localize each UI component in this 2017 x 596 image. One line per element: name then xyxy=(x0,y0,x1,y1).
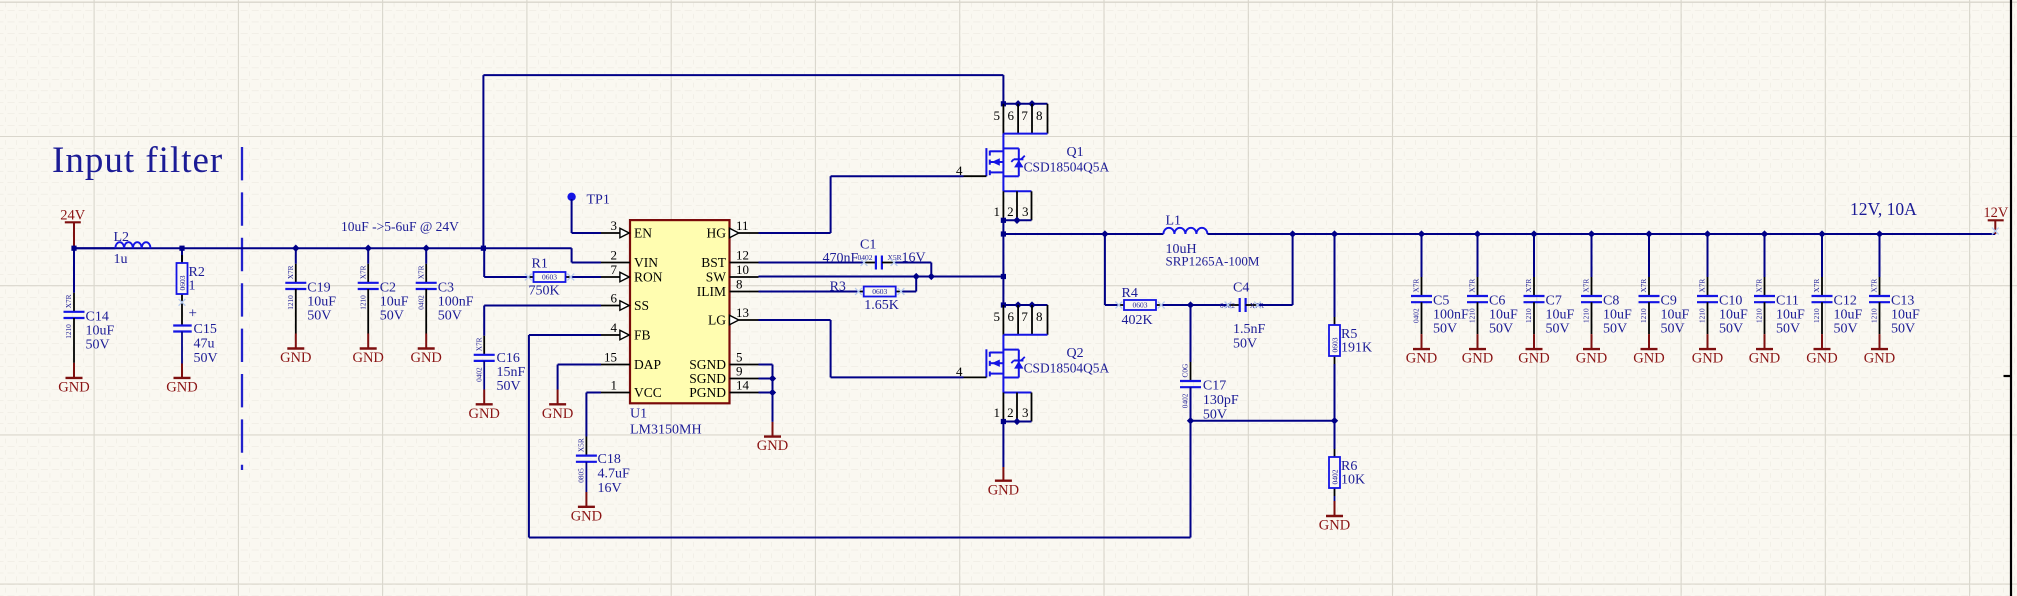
svg-text:X5R: X5R xyxy=(888,253,902,262)
svg-text:2: 2 xyxy=(611,247,618,262)
pin 9 SGND xyxy=(730,378,759,380)
wire xyxy=(1591,234,1593,277)
resistor R6 xyxy=(1334,449,1336,457)
pin 1 VCC xyxy=(601,392,630,394)
svg-text:L2: L2 xyxy=(114,230,130,245)
svg-text:0603: 0603 xyxy=(178,275,187,290)
svg-text:4.7uF: 4.7uF xyxy=(598,466,631,481)
resistor R1 xyxy=(528,276,533,278)
capacitor C9 xyxy=(1648,277,1650,296)
svg-text:Q2: Q2 xyxy=(1067,346,1084,361)
ground xyxy=(1764,334,1766,349)
capacitor C3 xyxy=(423,245,430,252)
wire: feedback node xyxy=(1191,420,1335,422)
capacitor C2 xyxy=(367,264,369,283)
svg-text:DAP: DAP xyxy=(634,357,661,372)
svg-text:50V: 50V xyxy=(1233,336,1257,351)
svg-text:50V: 50V xyxy=(1834,322,1858,337)
svg-text:1210: 1210 xyxy=(1524,308,1533,323)
svg-text:GND: GND xyxy=(1864,351,1895,367)
svg-text:C3: C3 xyxy=(438,280,454,295)
capacitor C4 xyxy=(1191,304,1229,306)
ground xyxy=(367,334,369,349)
svg-text:10uF: 10uF xyxy=(1891,308,1920,323)
svg-text:50V: 50V xyxy=(380,308,404,323)
node: junction at R2 xyxy=(179,246,184,251)
capacitor C15 (polarized) xyxy=(181,302,183,326)
svg-text:CSD18504Q5A: CSD18504Q5A xyxy=(1024,361,1110,376)
svg-text:GND: GND xyxy=(1518,351,1549,367)
body diode xyxy=(1003,147,1018,149)
svg-text:191K: 191K xyxy=(1341,341,1372,356)
svg-text:10uF: 10uF xyxy=(1546,308,1575,323)
wire: SW line xyxy=(759,276,1004,278)
wire: top rail to Q1 drain xyxy=(483,74,1003,76)
svg-text:3: 3 xyxy=(1022,405,1029,420)
svg-text:GND: GND xyxy=(542,406,573,422)
node: feedback junction xyxy=(1187,417,1194,424)
node: R5/R6 junction xyxy=(1331,417,1338,424)
svg-text:2: 2 xyxy=(1007,204,1014,219)
ground xyxy=(1533,334,1535,349)
svg-text:C10: C10 xyxy=(1719,294,1742,309)
capacitor C2 xyxy=(365,245,372,252)
svg-text:GND: GND xyxy=(468,406,499,422)
capacitor C7 xyxy=(1533,277,1535,296)
svg-text:2: 2 xyxy=(1007,405,1014,420)
svg-text:R1: R1 xyxy=(532,257,548,272)
svg-text:10uF: 10uF xyxy=(1489,308,1518,323)
capacitor C3 xyxy=(425,264,427,283)
wire: source pins tie xyxy=(1003,421,1031,423)
ground xyxy=(772,422,774,437)
svg-text:1: 1 xyxy=(994,204,1001,219)
svg-text:6: 6 xyxy=(1007,108,1014,123)
svg-text:X7R: X7R xyxy=(286,265,295,279)
wire xyxy=(425,248,427,264)
svg-text:1.5nF: 1.5nF xyxy=(1233,322,1266,337)
svg-text:X7R: X7R xyxy=(416,265,425,279)
ground xyxy=(483,390,485,405)
svg-text:3: 3 xyxy=(1022,204,1029,219)
wire: drain pins tie xyxy=(1003,103,1047,105)
ground xyxy=(425,334,427,349)
pin 10 SW xyxy=(730,276,759,278)
ground xyxy=(585,492,587,507)
svg-text:C16: C16 xyxy=(497,351,520,366)
svg-text:10uF: 10uF xyxy=(1661,308,1690,323)
capacitor C18 xyxy=(585,437,587,456)
svg-text:10uF: 10uF xyxy=(307,294,336,309)
svg-text:0402: 0402 xyxy=(1412,308,1421,323)
pin 15 DAP xyxy=(601,364,630,366)
svg-text:50V: 50V xyxy=(438,308,462,323)
svg-text:GND: GND xyxy=(1806,351,1837,367)
svg-text:50V: 50V xyxy=(1719,322,1743,337)
svg-text:R3: R3 xyxy=(830,280,846,295)
svg-text:GND: GND xyxy=(352,350,383,366)
svg-text:10uF: 10uF xyxy=(380,294,409,309)
svg-text:50V: 50V xyxy=(1546,322,1570,337)
capacitor C8 xyxy=(1591,277,1593,296)
svg-text:R4: R4 xyxy=(1122,286,1138,301)
node: R4/C4/C17 junction xyxy=(1187,301,1194,308)
svg-text:GND: GND xyxy=(571,508,602,524)
svg-text:C4: C4 xyxy=(1233,281,1249,296)
svg-text:TP1: TP1 xyxy=(587,192,610,207)
inductor L2 xyxy=(74,247,115,249)
svg-text:C17: C17 xyxy=(1203,378,1226,393)
svg-text:0603: 0603 xyxy=(1330,337,1339,352)
wire: C4 to output rail xyxy=(1258,304,1293,306)
capacitor C10 xyxy=(1707,277,1709,296)
wire xyxy=(295,248,297,264)
pin 4 gate xyxy=(964,175,987,177)
svg-text:GND: GND xyxy=(1692,351,1723,367)
resistor R5 xyxy=(1334,317,1336,325)
svg-text:1: 1 xyxy=(189,279,196,294)
svg-text:X7R: X7R xyxy=(474,337,483,351)
svg-text:+: + xyxy=(189,306,197,322)
wire: SGND/PGND tie xyxy=(759,364,773,366)
source pins tie xyxy=(1003,190,1031,192)
svg-text:SS: SS xyxy=(634,298,649,313)
svg-text:SGND: SGND xyxy=(689,371,726,386)
ground xyxy=(1334,501,1336,516)
svg-text:15: 15 xyxy=(604,349,617,364)
ground xyxy=(1002,467,1004,481)
svg-text:C18: C18 xyxy=(598,452,621,467)
svg-text:C8: C8 xyxy=(1603,294,1619,309)
wire: drain pins tie xyxy=(1003,304,1047,306)
svg-text:1210: 1210 xyxy=(1698,308,1707,323)
node: C1 junction xyxy=(928,273,935,280)
wire xyxy=(73,248,75,293)
hotspot marks xyxy=(525,274,532,281)
svg-text:LM3150MH: LM3150MH xyxy=(630,423,702,438)
node: junction C12 xyxy=(1818,230,1825,237)
svg-text:15nF: 15nF xyxy=(497,365,526,380)
ground xyxy=(1648,334,1650,349)
svg-text:1210: 1210 xyxy=(286,295,295,310)
svg-text:0603: 0603 xyxy=(542,273,557,282)
svg-text:X7R: X7R xyxy=(1524,279,1533,293)
wire xyxy=(1477,234,1479,277)
wire: LG to Q2 gate xyxy=(759,319,831,321)
svg-text:X5R: X5R xyxy=(577,438,586,452)
wire: FB feedback xyxy=(529,334,601,336)
svg-text:X7R: X7R xyxy=(1468,279,1477,293)
wire: VIN step into U1 pin2 xyxy=(571,248,573,262)
svg-text:GND: GND xyxy=(1406,351,1437,367)
mosfet body Q1 xyxy=(1003,133,1047,135)
svg-text:50V: 50V xyxy=(194,351,218,366)
pin 14 PGND xyxy=(730,392,759,394)
svg-text:50V: 50V xyxy=(1489,322,1513,337)
node: SGND9 junction xyxy=(769,375,776,382)
svg-text:SW: SW xyxy=(706,270,727,285)
svg-text:10uF: 10uF xyxy=(1834,308,1863,323)
wire: DAP to ground xyxy=(558,364,601,366)
svg-text:1210: 1210 xyxy=(1639,308,1648,323)
svg-text:50V: 50V xyxy=(307,308,331,323)
node: junction C9 xyxy=(1645,230,1652,237)
wire xyxy=(1648,234,1650,277)
capacitor C5 xyxy=(1421,277,1423,296)
wire: C1 to SW node xyxy=(894,262,931,264)
ground xyxy=(1821,334,1823,349)
svg-text:50V: 50V xyxy=(1661,322,1685,337)
pin 6 SS xyxy=(601,305,620,307)
svg-text:C11: C11 xyxy=(1776,294,1799,309)
resistor R6 xyxy=(1334,421,1336,449)
wire xyxy=(1533,234,1535,277)
svg-text:1.65K: 1.65K xyxy=(864,298,899,313)
svg-text:0402: 0402 xyxy=(416,295,425,310)
svg-text:0402: 0402 xyxy=(1330,469,1339,484)
svg-text:5: 5 xyxy=(994,309,1001,324)
node: SW out junction xyxy=(1001,231,1006,236)
svg-text:8: 8 xyxy=(1036,309,1043,324)
resistor R2 xyxy=(181,248,183,261)
pin 3 xyxy=(1031,191,1033,220)
svg-text:4: 4 xyxy=(956,364,963,379)
svg-text:50V: 50V xyxy=(1603,322,1627,337)
pin 11 HG xyxy=(739,232,759,234)
pin 8 xyxy=(1047,104,1049,134)
svg-text:X7R: X7R xyxy=(1582,279,1591,293)
svg-text:SRP1265A-100M: SRP1265A-100M xyxy=(1166,254,1260,269)
ground xyxy=(1591,334,1593,349)
svg-text:Input filter: Input filter xyxy=(52,140,223,181)
node: junction C6 xyxy=(1474,230,1481,237)
wire: HG to Q1 gate xyxy=(759,232,831,234)
node: junction C7 xyxy=(1530,230,1537,237)
svg-text:C0G: C0G xyxy=(1181,363,1190,378)
svg-text:C1: C1 xyxy=(860,238,876,253)
node: junction C13 xyxy=(1876,230,1883,237)
svg-text:1210: 1210 xyxy=(1582,308,1591,323)
capacitor C11 xyxy=(1764,277,1766,296)
svg-text:24V: 24V xyxy=(60,207,86,223)
svg-text:C13: C13 xyxy=(1891,294,1914,309)
svg-text:X7R: X7R xyxy=(358,265,367,279)
node: junction C11 xyxy=(1761,230,1768,237)
svg-text:50V: 50V xyxy=(86,337,110,352)
svg-text:1210: 1210 xyxy=(1755,308,1764,323)
svg-text:50V: 50V xyxy=(1776,322,1800,337)
svg-text:GND: GND xyxy=(988,482,1019,498)
pin 2 VIN xyxy=(601,262,630,264)
svg-text:10uF: 10uF xyxy=(1719,308,1748,323)
ground xyxy=(1421,334,1423,349)
node: junction C10 xyxy=(1704,230,1711,237)
svg-text:6: 6 xyxy=(1007,309,1014,324)
capacitor C1 xyxy=(864,262,876,264)
svg-text:GND: GND xyxy=(1462,351,1493,367)
svg-text:RON: RON xyxy=(634,270,663,285)
svg-text:100nF: 100nF xyxy=(1433,308,1469,323)
svg-text:130pF: 130pF xyxy=(1203,393,1239,408)
svg-text:14: 14 xyxy=(736,377,750,392)
wire: source pins tie xyxy=(1003,219,1031,221)
pin 7 xyxy=(1031,104,1033,134)
pin 3 xyxy=(1031,393,1033,422)
pin 1 xyxy=(1002,191,1004,220)
svg-text:X7R: X7R xyxy=(1698,279,1707,293)
svg-text:EN: EN xyxy=(634,226,652,241)
svg-text:0603: 0603 xyxy=(1133,301,1148,310)
pin 3 EN xyxy=(601,232,620,234)
svg-text:C5: C5 xyxy=(1433,294,1449,309)
wire xyxy=(1879,234,1881,277)
svg-text:7: 7 xyxy=(1021,108,1028,123)
svg-text:X7R: X7R xyxy=(1870,279,1879,293)
svg-text:1210: 1210 xyxy=(1812,308,1821,323)
wire xyxy=(367,248,369,264)
pin 6 xyxy=(1017,305,1019,335)
capacitor C12 xyxy=(1821,277,1823,296)
svg-text:C7: C7 xyxy=(1546,294,1562,309)
wire: output rail 12V xyxy=(1207,233,1995,235)
svg-text:12: 12 xyxy=(736,247,749,262)
svg-text:6: 6 xyxy=(611,290,618,305)
node: R3 junction xyxy=(913,273,920,280)
svg-text:GND: GND xyxy=(280,350,311,366)
svg-text:FB: FB xyxy=(634,328,651,343)
svg-text:10uF: 10uF xyxy=(86,323,115,338)
node: C4 junction on rail xyxy=(1289,230,1296,237)
pin 12 BST xyxy=(730,262,759,264)
svg-text:10: 10 xyxy=(736,262,749,277)
svg-text:GND: GND xyxy=(1749,351,1780,367)
wire: R3 up to SW xyxy=(901,291,916,293)
svg-text:1210: 1210 xyxy=(358,295,367,310)
svg-text:0402: 0402 xyxy=(474,367,483,382)
wire: riser to top rail xyxy=(482,75,484,248)
svg-text:HG: HG xyxy=(707,226,727,241)
wire xyxy=(1421,234,1423,277)
svg-text:L1: L1 xyxy=(1166,213,1182,228)
svg-text:16V: 16V xyxy=(598,481,622,496)
svg-text:7: 7 xyxy=(611,262,618,277)
pin 13 LG xyxy=(739,319,759,321)
svg-text:10uF ->5-6uF @ 24V: 10uF ->5-6uF @ 24V xyxy=(341,219,459,234)
wire: ILIM to R3 xyxy=(759,291,859,293)
capacitor C13 xyxy=(1879,277,1881,296)
svg-text:4: 4 xyxy=(956,163,963,178)
node: PGND junction xyxy=(769,389,776,396)
svg-text:GND: GND xyxy=(757,438,788,454)
pin 5 xyxy=(1002,104,1004,134)
ground xyxy=(1477,334,1479,349)
svg-text:10uF: 10uF xyxy=(1603,308,1632,323)
svg-text:0603: 0603 xyxy=(872,287,887,296)
wire: R4 branch xyxy=(1104,234,1106,305)
svg-text:X7R: X7R xyxy=(1812,279,1821,293)
svg-text:7: 7 xyxy=(1021,309,1028,324)
svg-text:U1: U1 xyxy=(630,406,647,421)
svg-text:1u: 1u xyxy=(114,252,128,267)
svg-text:GND: GND xyxy=(1319,518,1350,534)
capacitor C19 xyxy=(295,264,297,283)
pin 4 gate xyxy=(964,376,987,378)
wire: VCC to C18 xyxy=(586,392,601,394)
body diode xyxy=(1003,349,1018,351)
wire xyxy=(1707,234,1709,277)
svg-text:10K: 10K xyxy=(1341,473,1365,488)
svg-text:GND: GND xyxy=(1633,351,1664,367)
wire: SW node to L1 xyxy=(1003,233,1163,235)
svg-text:9: 9 xyxy=(736,363,743,378)
svg-text:C6: C6 xyxy=(1489,294,1505,309)
pin 5 xyxy=(1002,305,1004,335)
svg-text:12V: 12V xyxy=(1983,205,2009,221)
resistor R2 xyxy=(181,255,183,263)
svg-text:1210: 1210 xyxy=(64,324,73,339)
svg-text:C14: C14 xyxy=(86,309,109,324)
svg-text:13: 13 xyxy=(736,305,749,320)
pin 1 xyxy=(1002,393,1004,422)
svg-text:GND: GND xyxy=(58,380,89,396)
wire: 24V input bus xyxy=(74,247,572,249)
svg-text:X7R: X7R xyxy=(1639,279,1648,293)
svg-text:C2: C2 xyxy=(380,280,396,295)
svg-text:VCC: VCC xyxy=(634,385,662,400)
svg-text:1210: 1210 xyxy=(1870,308,1879,323)
svg-text:470nF: 470nF xyxy=(823,251,859,266)
svg-text:100nF: 100nF xyxy=(438,294,474,309)
svg-text:8: 8 xyxy=(736,276,743,291)
node: junction at C14 xyxy=(71,246,76,251)
resistor R3 xyxy=(858,291,863,293)
svg-text:PGND: PGND xyxy=(689,385,726,400)
wire: SS to C16 xyxy=(484,305,601,307)
capacitor C16 xyxy=(483,306,485,336)
svg-text:C19: C19 xyxy=(307,280,330,295)
svg-text:ILIM: ILIM xyxy=(697,284,726,299)
svg-text:50V: 50V xyxy=(497,379,521,394)
pin 4 FB xyxy=(601,334,620,336)
wire: Q2 source to ground xyxy=(1002,422,1004,468)
svg-text:0805: 0805 xyxy=(577,468,586,483)
svg-text:CSD18504Q5A: CSD18504Q5A xyxy=(1024,160,1110,175)
wire: TP1 to EN xyxy=(571,199,573,233)
svg-text:Q1: Q1 xyxy=(1067,145,1084,160)
node: R4 branch junction xyxy=(1101,230,1108,237)
node: VIN junction xyxy=(481,246,486,251)
svg-text:5: 5 xyxy=(736,349,743,364)
svg-text:SGND: SGND xyxy=(689,357,726,372)
test point TP1 xyxy=(567,193,575,201)
wire xyxy=(1764,234,1766,277)
resistor R4 xyxy=(1119,304,1124,306)
ground xyxy=(1707,334,1709,349)
svg-text:0402: 0402 xyxy=(1181,393,1190,408)
svg-text:GND: GND xyxy=(1576,351,1607,367)
pin 6 xyxy=(1017,104,1019,134)
svg-text:402K: 402K xyxy=(1122,313,1153,328)
svg-text:1: 1 xyxy=(994,405,1001,420)
node: R5 junction on rail xyxy=(1331,230,1338,237)
svg-text:LG: LG xyxy=(708,313,726,328)
capacitor C14 xyxy=(73,293,75,312)
capacitor C17 xyxy=(1190,305,1192,362)
pin 5 SGND xyxy=(730,364,759,366)
pin 7 xyxy=(1031,305,1033,335)
mosfet body Q2 xyxy=(1003,334,1047,336)
ground xyxy=(181,364,183,378)
